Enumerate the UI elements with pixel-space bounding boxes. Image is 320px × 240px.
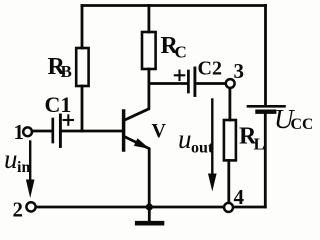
capacitor C1 xyxy=(53,115,61,147)
svg-text:C2: C2 xyxy=(198,58,222,80)
svg-text:V: V xyxy=(152,120,167,142)
wire RB bottom lead xyxy=(81,86,84,131)
C1 plus sign xyxy=(64,115,73,124)
wire RC top lead xyxy=(147,6,150,33)
transistor V base bar xyxy=(122,111,126,150)
svg-text:B: B xyxy=(61,62,72,81)
svg-text:3: 3 xyxy=(234,59,245,83)
svg-text:4: 4 xyxy=(234,185,245,209)
junction dot emitter-ground xyxy=(146,203,153,210)
wire RB top lead xyxy=(81,6,84,49)
node 4 terminal circle xyxy=(224,203,233,212)
resistor RB xyxy=(76,48,88,86)
transistor emitter arrowhead xyxy=(134,138,150,149)
svg-text:1: 1 xyxy=(14,120,25,144)
wire top rail xyxy=(82,4,266,7)
u_out arrow line xyxy=(211,100,213,176)
battery UCC plates xyxy=(248,106,285,111)
transistor V emitter xyxy=(125,137,149,207)
u_out arrowhead xyxy=(208,174,217,192)
wire C1 to base xyxy=(60,130,122,133)
wire battery negative lead xyxy=(264,114,267,208)
wire node3 to RL xyxy=(228,88,231,120)
ground bar xyxy=(137,221,162,226)
svg-text:2: 2 xyxy=(13,198,24,222)
node 3 terminal circle xyxy=(226,79,235,88)
wire collector node to C2 xyxy=(149,82,188,85)
svg-text:in: in xyxy=(17,159,30,176)
svg-text:out: out xyxy=(191,140,214,157)
svg-text:C: C xyxy=(175,43,187,62)
node 2 terminal circle xyxy=(26,202,35,211)
capacitor C2 xyxy=(188,68,195,96)
svg-text:L: L xyxy=(254,135,265,154)
u_in arrowhead xyxy=(26,180,35,199)
transistor V collector xyxy=(125,69,149,120)
wire RL to node 4 xyxy=(227,160,230,203)
resistor RC xyxy=(142,32,156,69)
node 1 terminal circle xyxy=(23,127,32,136)
svg-text:u: u xyxy=(178,124,192,154)
wire C2 to node 3 xyxy=(195,82,226,85)
C2 plus sign xyxy=(175,71,184,80)
resistor RL xyxy=(224,120,236,160)
ground stub xyxy=(148,207,151,221)
wire bottom rail xyxy=(36,206,266,209)
svg-text:u: u xyxy=(4,144,18,174)
svg-text:CC: CC xyxy=(291,116,313,133)
svg-text:C1: C1 xyxy=(45,92,72,117)
u_in arrow line xyxy=(29,142,31,182)
wire battery positive lead xyxy=(264,6,267,106)
wire node1 to C1 xyxy=(32,130,52,133)
